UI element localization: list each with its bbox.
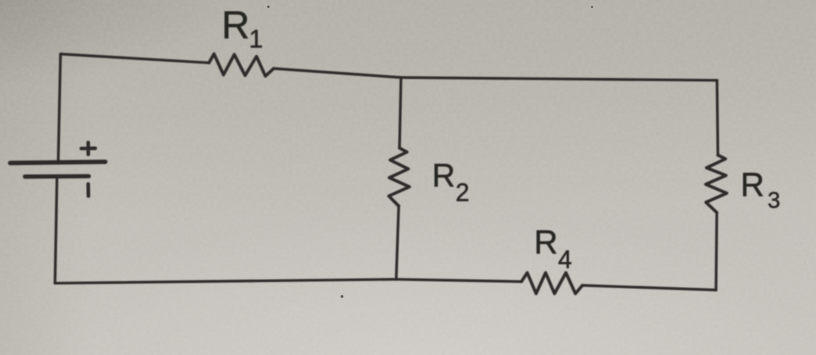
battery V1 negative plate (short) (25, 174, 89, 179)
battery plus sign (81, 143, 95, 155)
wire: middle branch vertical from top junction down to R2 (400, 78, 402, 149)
wire: top horizontal from middle junction to top-right corner (401, 78, 717, 81)
node: bottom middle junction (395, 279, 397, 281)
wire: right vertical from R3 down to bottom-right corner (715, 213, 718, 291)
speck dot on paper near R1 label (267, 6, 269, 8)
speck dot on paper below bottom wire (341, 295, 344, 298)
svg-text:4: 4 (558, 246, 572, 274)
wire: top horizontal from R1 to middle junction node (274, 69, 401, 78)
wire: bottom horizontal from R4 to bottom middle junction node (396, 279, 521, 281)
svg-text:R: R (741, 166, 765, 203)
battery V1 positive plate (long) (10, 162, 105, 163)
wire: bottom horizontal from middle junction to bottom-left corner (55, 279, 396, 283)
wire: left vertical from bottom-left corner up to battery negative plate (55, 177, 57, 284)
wire: right vertical from top-right corner down to R3 (716, 80, 720, 155)
svg-text:R: R (534, 223, 558, 260)
resistor R2 (389, 148, 410, 206)
svg-text:R: R (222, 4, 250, 47)
battery minus mark (86, 184, 90, 196)
svg-text:1: 1 (249, 26, 263, 54)
svg-text:3: 3 (768, 187, 781, 213)
resistor R1 (209, 54, 274, 76)
wire: top-left vertical from top-left corner down to battery positive plate (58, 54, 60, 162)
wire: bottom horizontal from bottom-right corner to R4 (582, 285, 716, 290)
wire: top horizontal from top-left corner to R1 (61, 54, 210, 63)
svg-text:2: 2 (456, 179, 470, 207)
resistor R4 (522, 273, 583, 294)
node: top middle junction (400, 77, 402, 79)
wire: middle branch vertical from R2 down to bottom junction (396, 206, 399, 279)
svg-text:R: R (432, 158, 455, 194)
resistor R3 (706, 155, 727, 212)
speck dot on paper top right (591, 6, 593, 8)
